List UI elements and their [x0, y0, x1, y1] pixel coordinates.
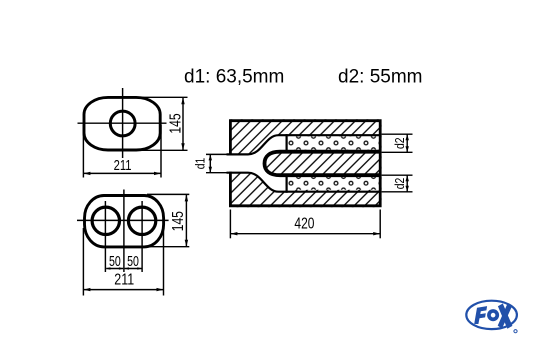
inner pipe circle	[110, 111, 135, 136]
left pipe circle	[92, 207, 119, 234]
svg-text:145: 145	[166, 113, 184, 133]
svg-text:d1: d1	[193, 158, 207, 170]
dim d2 lower line	[406, 175, 408, 192]
logo letter X	[498, 304, 513, 329]
dim 145 extension top	[147, 193, 189, 195]
dim d1 line	[209, 154, 211, 172]
upper perforated pipe area	[287, 136, 380, 149]
dim d2 upper extension bottom	[382, 151, 413, 153]
dim 145 line	[182, 97, 184, 150]
dim 145 line	[185, 194, 187, 246]
center line vertical right circle	[141, 201, 143, 272]
logo ellipse	[466, 301, 517, 329]
oval body	[85, 196, 164, 247]
casing outline with inlet gap	[230, 121, 380, 206]
dim 420 extension right	[379, 210, 381, 239]
dim 145 extension bottom	[142, 149, 188, 151]
Y-pipe white channel	[226, 135, 288, 192]
dim 420 line	[230, 233, 380, 235]
hatched casing fill	[229, 119, 382, 207]
dim 211 extension right	[160, 125, 162, 178]
dim d2 upper line	[406, 134, 408, 152]
logo letter F	[474, 306, 487, 324]
logo letter O	[487, 309, 499, 321]
svg-text:211: 211	[114, 271, 134, 289]
dim d2 upper extension top	[382, 133, 413, 135]
svg-text:420: 420	[294, 214, 314, 232]
dim 50 right line	[125, 268, 142, 270]
svg-text:145: 145	[168, 211, 186, 231]
perforation boundary lower	[286, 174, 288, 193]
inlet top wall and upper pipe top	[227, 135, 381, 154]
center line vertical middle	[123, 190, 125, 273]
dim d2 lower extension top	[382, 174, 413, 176]
Y divider nose and inner pipe walls	[265, 152, 381, 176]
center line horizontal	[78, 122, 167, 124]
dim 145 extension bottom	[147, 246, 189, 248]
lower perforated pipe area	[287, 176, 380, 189]
center line vertical left circle	[104, 201, 106, 272]
right pipe circle	[128, 207, 155, 234]
svg-text:50: 50	[109, 253, 121, 269]
perforation boundary upper	[286, 134, 288, 153]
svg-text:50: 50	[127, 253, 139, 269]
dim 211 extension left	[82, 228, 84, 296]
dim 145 extension top	[142, 96, 188, 98]
svg-text:211: 211	[114, 156, 132, 173]
dim d1 extension bottom	[206, 172, 228, 174]
dim d1 extension top	[206, 153, 228, 155]
dim 50 left line	[106, 268, 123, 270]
dim 211 extension right	[163, 228, 165, 296]
svg-text:d2: d2	[393, 137, 407, 149]
dim 211 line	[83, 172, 161, 174]
registered mark	[514, 330, 517, 333]
dim 211 extension left	[82, 125, 84, 178]
dim 420 extension left	[229, 210, 231, 239]
svg-text:d1: 63,5mm: d1: 63,5mm	[184, 66, 284, 87]
center line vertical	[122, 88, 124, 158]
dim d2 lower extension bottom	[382, 191, 413, 193]
svg-text:d2: d2	[393, 178, 407, 190]
center line horizontal	[77, 219, 169, 221]
oval body	[84, 97, 160, 150]
svg-text:d2: 55mm: d2: 55mm	[338, 66, 422, 87]
dim 211 line	[83, 289, 163, 291]
inlet bottom wall and lower pipe bottom	[227, 173, 381, 192]
